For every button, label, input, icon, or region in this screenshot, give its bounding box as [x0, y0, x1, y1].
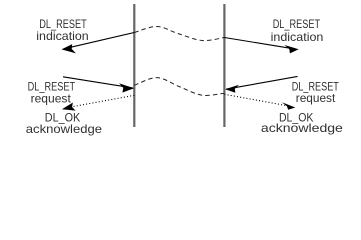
wire: lower dashed wavy link between SAPs: [134, 78, 224, 96]
arrowhead indication (left): [62, 44, 77, 53]
arrowhead acknowledge (left): [62, 103, 76, 111]
arrowhead request (left): [119, 83, 134, 92]
arrowhead indication (right): [285, 45, 299, 53]
svg-text:request: request: [296, 91, 336, 105]
wire: DL_RESET request arrow (right): [226, 76, 298, 89]
arrowhead request (right): [225, 85, 239, 93]
arrowhead acknowledge (right): [282, 102, 295, 110]
wire: DL_OK acknowledge dotted arrow (right): [224, 94, 286, 105]
wire: DL_RESET request arrow (left): [63, 77, 133, 88]
svg-text:DL_RESET: DL_RESET: [273, 17, 321, 31]
service access point line (right): [223, 4, 225, 127]
svg-text:indication: indication: [271, 30, 324, 44]
wire: upper dashed wavy link between SAPs: [134, 26, 224, 40]
svg-text:request: request: [31, 91, 72, 105]
wire: DL_RESET indication arrow (right): [224, 38, 296, 50]
wire: DL_RESET indication arrow (left): [64, 33, 134, 49]
svg-text:acknowledge: acknowledge: [26, 122, 103, 136]
service access point line (left): [133, 4, 135, 127]
wire: DL_OK acknowledge dotted arrow (left): [73, 95, 134, 106]
svg-text:acknowledge: acknowledge: [261, 121, 343, 135]
svg-text:indication: indication: [36, 29, 88, 43]
